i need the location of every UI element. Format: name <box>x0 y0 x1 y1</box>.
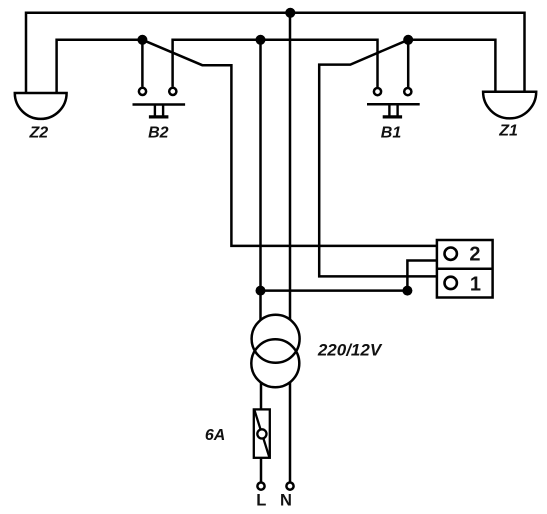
svg-text:220/12V: 220/12V <box>317 340 383 359</box>
svg-text:Z1: Z1 <box>498 123 518 140</box>
svg-text:B1: B1 <box>381 125 402 142</box>
svg-text:Z2: Z2 <box>28 124 48 141</box>
svg-text:2: 2 <box>469 244 480 266</box>
svg-text:6A: 6A <box>205 427 225 444</box>
svg-text:L: L <box>256 492 266 510</box>
svg-text:N: N <box>280 492 292 510</box>
svg-text:B2: B2 <box>148 124 169 141</box>
svg-text:1: 1 <box>470 274 481 296</box>
